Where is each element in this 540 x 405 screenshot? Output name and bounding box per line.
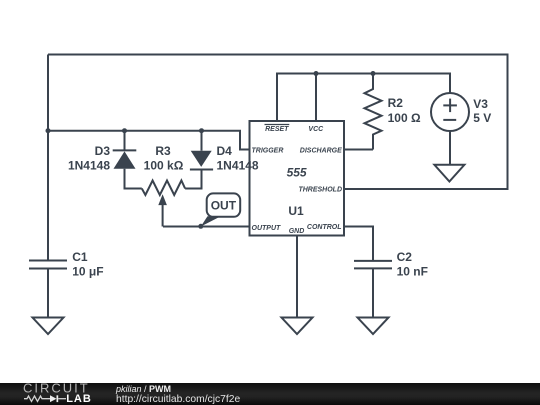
- ground below C1: [33, 318, 64, 335]
- svg-text:http://circuitlab.com/cjc7f2e: http://circuitlab.com/cjc7f2e: [116, 394, 240, 405]
- svg-text:555: 555: [287, 165, 307, 179]
- wire D4 cathode to R3 right end: [185, 170, 201, 189]
- junction node A at D4: [199, 128, 204, 133]
- capacitor C2: [354, 260, 392, 262]
- diode D3 top lead: [124, 131, 126, 151]
- diode D4 cathode bar: [190, 169, 213, 171]
- wire V3 to ground: [449, 131, 451, 165]
- svg-text:100 kΩ: 100 kΩ: [144, 159, 184, 173]
- svg-text:5 V: 5 V: [473, 111, 491, 125]
- svg-text:THRESHOLD: THRESHOLD: [298, 186, 342, 193]
- diode D4 top lead: [201, 131, 203, 151]
- svg-text:C1: C1: [72, 250, 88, 264]
- diode D3 body (triangle): [114, 151, 136, 168]
- ground below V3: [434, 165, 464, 182]
- wire RESET riser and VCC rail to V3: [277, 74, 450, 122]
- logo resistor glyph: [24, 396, 50, 401]
- svg-text:pkilian / PWM: pkilian / PWM: [115, 384, 171, 394]
- svg-text:GND: GND: [289, 228, 305, 235]
- svg-text:D3: D3: [95, 144, 111, 158]
- svg-text:RESET: RESET: [265, 126, 289, 133]
- resistor R3 zigzag (potentiometer): [142, 181, 185, 196]
- svg-text:10 μF: 10 μF: [72, 264, 103, 278]
- svg-text:LAB: LAB: [66, 393, 92, 405]
- R3 wiper arrowhead: [158, 194, 167, 205]
- wire D3 anode to R3 left end: [125, 169, 142, 189]
- svg-text:OUTPUT: OUTPUT: [252, 225, 282, 232]
- wire C1 to ground: [47, 269, 49, 318]
- voltage source V3 circle: [431, 93, 469, 131]
- wire OUTPUT pin to wiper: [163, 226, 250, 228]
- wire VCC pin riser: [315, 74, 317, 122]
- wire left rail (node A down to C1): [47, 55, 49, 261]
- svg-text:1N4148: 1N4148: [217, 159, 259, 173]
- wire CONTROL pin to C2: [344, 227, 373, 261]
- svg-text:R3: R3: [155, 144, 171, 158]
- wire R3 wiper shaft: [162, 204, 164, 227]
- wire GND pin down: [296, 236, 298, 318]
- svg-text:V3: V3: [473, 97, 488, 111]
- svg-text:10 nF: 10 nF: [397, 264, 428, 278]
- wire DISCHARGE pin to R2: [344, 149, 373, 151]
- junction VCC rail at R2: [371, 71, 376, 76]
- svg-text:U1: U1: [288, 204, 304, 218]
- ground below U1 GND pin: [282, 318, 313, 335]
- junction node A at left rail: [46, 128, 51, 133]
- wire C2 to ground: [372, 268, 374, 317]
- svg-text:R2: R2: [388, 96, 404, 110]
- diode D3 cathode bar: [113, 149, 137, 151]
- diode D4 body (triangle): [191, 151, 212, 167]
- svg-text:100 Ω: 100 Ω: [388, 111, 421, 125]
- ground below C2: [358, 318, 389, 335]
- logo diode glyph: [50, 395, 58, 402]
- svg-text:C2: C2: [397, 250, 413, 264]
- resistor R2: [365, 74, 382, 150]
- svg-text:1N4148: 1N4148: [68, 159, 110, 173]
- flag OUT anchor dot: [198, 224, 203, 229]
- svg-text:DISCHARGE: DISCHARGE: [300, 147, 342, 154]
- svg-text:OUT: OUT: [211, 199, 237, 213]
- wire node A horizontal to TRIGGER pin: [48, 131, 250, 150]
- IC U1 555 timer body: [250, 121, 345, 236]
- svg-text:TRIGGER: TRIGGER: [252, 147, 284, 154]
- V3 plus sign: [443, 104, 457, 106]
- flag OUT balloon box: [207, 193, 241, 216]
- svg-text:D4: D4: [217, 144, 233, 158]
- V3 minus sign: [443, 119, 456, 121]
- svg-text:VCC: VCC: [308, 126, 324, 133]
- svg-text:CONTROL: CONTROL: [307, 224, 342, 231]
- junction VCC rail at VCC pin: [314, 71, 319, 76]
- flag OUT pointer: [201, 216, 221, 226]
- capacitor C1: [29, 260, 67, 262]
- junction node A at D3: [122, 128, 127, 133]
- wire top rail / right rail to THRESHOLD pin: [48, 55, 508, 190]
